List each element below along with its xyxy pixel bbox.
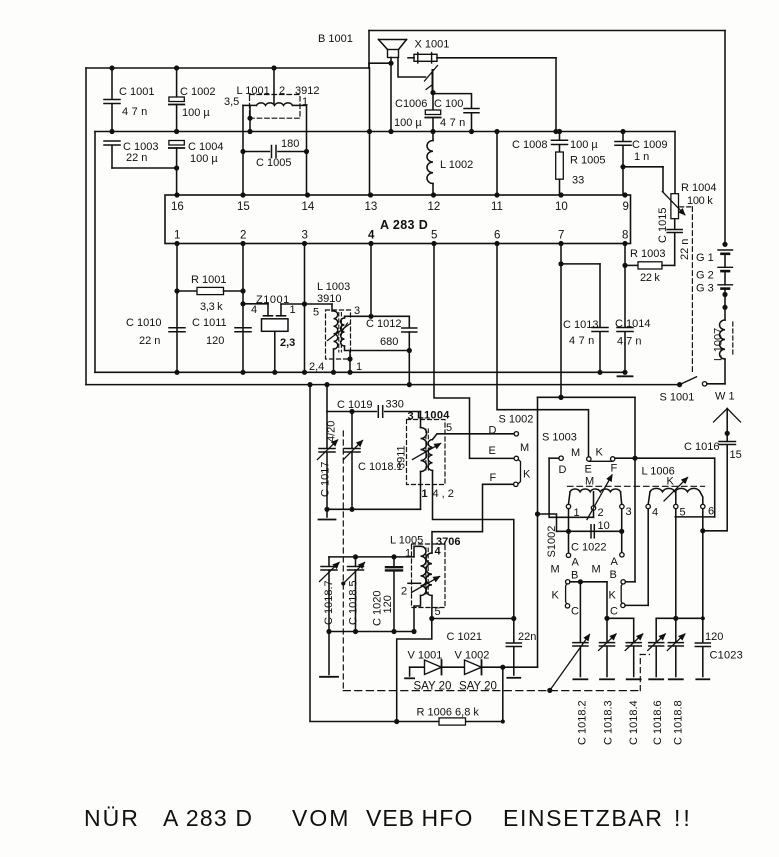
svg-text:6: 6 [708, 506, 714, 518]
svg-text:C 1001: C 1001 [119, 86, 154, 98]
svg-text:EINSETZBAR: EINSETZBAR [503, 805, 663, 831]
svg-text:C 1018.4: C 1018.4 [628, 700, 640, 745]
svg-text:S 1003: S 1003 [542, 432, 577, 444]
svg-text:100 µ: 100 µ [182, 107, 210, 119]
svg-text:1: 1 [290, 304, 296, 316]
svg-text:100 µ: 100 µ [190, 153, 218, 165]
svg-text:1: 1 [422, 488, 428, 500]
svg-text:C 1002: C 1002 [180, 86, 215, 98]
svg-text:C 1012: C 1012 [366, 318, 401, 330]
svg-text:4 7 n: 4 7 n [122, 106, 147, 118]
svg-text:W 1: W 1 [715, 391, 735, 403]
svg-text:L 1006: L 1006 [642, 466, 675, 478]
svg-text:22 k: 22 k [640, 272, 660, 284]
svg-text:C 1005: C 1005 [256, 157, 291, 169]
svg-text:3: 3 [408, 411, 414, 423]
svg-text:HFO: HFO [422, 805, 474, 831]
svg-text:120: 120 [705, 631, 723, 643]
svg-text:9: 9 [623, 201, 629, 213]
svg-text:F: F [490, 472, 497, 484]
svg-text:1: 1 [356, 361, 362, 373]
svg-text:S 1002: S 1002 [499, 414, 534, 426]
svg-text:1: 1 [574, 507, 580, 519]
svg-text:Z1001: Z1001 [256, 294, 290, 306]
svg-text:C 1018.2: C 1018.2 [577, 700, 589, 745]
svg-text:C 1015: C 1015 [657, 208, 669, 243]
svg-text:22 n: 22 n [679, 239, 691, 260]
svg-text:R 1006 6,8 k: R 1006 6,8 k [417, 707, 480, 719]
svg-text:E: E [489, 445, 496, 457]
svg-text:B: B [571, 570, 578, 582]
svg-text:L 1003: L 1003 [317, 281, 350, 293]
svg-text:8: 8 [622, 230, 628, 242]
svg-text:C: C [571, 606, 579, 618]
svg-text:L1004: L1004 [417, 410, 450, 422]
svg-text:C 1010: C 1010 [126, 317, 161, 329]
svg-text:A 283 D: A 283 D [163, 805, 253, 831]
svg-text:33: 33 [572, 175, 584, 187]
svg-text:120: 120 [206, 335, 224, 347]
svg-text:R 1004: R 1004 [681, 182, 716, 194]
svg-text:2: 2 [240, 230, 246, 242]
svg-text:330: 330 [386, 399, 404, 411]
svg-text:C 1013: C 1013 [563, 319, 598, 331]
svg-text:3: 3 [626, 506, 632, 518]
svg-text:12: 12 [428, 201, 441, 213]
svg-text:5: 5 [431, 230, 437, 242]
svg-text:C 1018.6: C 1018.6 [652, 700, 664, 745]
svg-text:120: 120 [382, 595, 394, 613]
svg-text:2: 2 [598, 507, 604, 519]
svg-text:C 1016: C 1016 [684, 441, 719, 453]
svg-text:M: M [592, 564, 601, 576]
svg-text:3: 3 [302, 230, 308, 242]
svg-text:13: 13 [365, 201, 378, 213]
svg-text:C 1009: C 1009 [632, 139, 667, 151]
svg-text:5: 5 [313, 307, 319, 319]
svg-text:1: 1 [405, 548, 411, 560]
svg-text:V 1001: V 1001 [408, 650, 443, 662]
svg-text:VEB: VEB [366, 805, 415, 831]
svg-text:4: 4 [435, 546, 442, 558]
svg-text:C 1017: C 1017 [320, 462, 332, 497]
svg-text:6: 6 [494, 230, 500, 242]
svg-text:M: M [585, 476, 594, 488]
svg-text:2,4: 2,4 [309, 361, 324, 373]
svg-text:10: 10 [555, 201, 568, 213]
svg-text:4 7 n: 4 7 n [440, 117, 465, 129]
svg-text:C 1008: C 1008 [512, 139, 547, 151]
svg-text:C 1018.3: C 1018.3 [603, 700, 615, 745]
svg-text:4,7 n: 4,7 n [617, 336, 641, 348]
svg-text:3,5: 3,5 [224, 96, 239, 108]
svg-text:M: M [571, 447, 580, 459]
svg-text:M: M [551, 564, 560, 576]
svg-text:X 1001: X 1001 [415, 39, 450, 51]
svg-text:V 1002: V 1002 [455, 650, 490, 662]
svg-text:C 1018.8: C 1018.8 [673, 700, 685, 745]
svg-text:22 n: 22 n [126, 152, 147, 164]
svg-text:NÜR: NÜR [84, 805, 140, 831]
svg-text:C 1004: C 1004 [188, 141, 223, 153]
svg-text:2,3: 2,3 [280, 337, 295, 349]
svg-text:S1002: S1002 [546, 526, 558, 558]
svg-text:M: M [520, 442, 529, 454]
svg-text:4: 4 [652, 507, 658, 519]
svg-text:22n: 22n [518, 631, 536, 643]
svg-text:3,3 k: 3,3 k [200, 301, 223, 313]
svg-text:L 1002: L 1002 [440, 159, 473, 171]
svg-text:G 2: G 2 [696, 270, 714, 282]
svg-text:C 100: C 100 [434, 98, 463, 110]
svg-text:B: B [610, 569, 617, 581]
svg-text:L 1005: L 1005 [390, 535, 423, 547]
svg-text:A 283 D: A 283 D [380, 218, 428, 232]
svg-text:4 7 n: 4 7 n [569, 335, 594, 347]
svg-text:2: 2 [279, 85, 285, 97]
svg-text:15: 15 [237, 201, 250, 213]
svg-text:!!: !! [674, 805, 693, 831]
svg-text:F: F [611, 463, 618, 475]
svg-text:C 1018.5: C 1018.5 [348, 580, 360, 625]
svg-text:15: 15 [730, 449, 742, 461]
svg-text:R 1001: R 1001 [191, 274, 226, 286]
svg-text:1 n: 1 n [634, 151, 649, 163]
svg-text:14: 14 [302, 201, 315, 213]
svg-text:3: 3 [354, 305, 360, 317]
svg-text:7: 7 [558, 230, 564, 242]
svg-text:100 k: 100 k [687, 195, 713, 207]
svg-text:D: D [559, 464, 567, 476]
svg-text:S 1001: S 1001 [660, 392, 695, 404]
svg-text:5: 5 [446, 422, 452, 434]
svg-text:K: K [552, 590, 560, 602]
svg-text:R 1003: R 1003 [630, 248, 665, 260]
svg-text:L 1001: L 1001 [237, 85, 270, 97]
svg-text:2: 2 [401, 586, 407, 598]
svg-text:VOM: VOM [292, 805, 350, 831]
svg-text:22 n: 22 n [139, 335, 160, 347]
svg-text:B 1001: B 1001 [318, 33, 353, 45]
svg-text:C 1021: C 1021 [447, 631, 482, 643]
svg-text:D: D [489, 425, 497, 437]
svg-text:K: K [523, 469, 531, 481]
svg-text:C 1014: C 1014 [615, 318, 650, 330]
svg-text:4 , 2: 4 , 2 [433, 488, 454, 500]
svg-text:4/20: 4/20 [326, 421, 338, 442]
svg-text:G 1: G 1 [696, 252, 714, 264]
svg-text:A: A [611, 556, 619, 568]
svg-text:A: A [572, 557, 580, 569]
svg-text:C1023: C1023 [710, 650, 743, 662]
svg-text:L 1007: L 1007 [713, 328, 725, 361]
svg-text:R 1005: R 1005 [570, 155, 605, 167]
svg-text:G 3: G 3 [696, 283, 714, 295]
svg-text:11: 11 [491, 201, 503, 213]
svg-text:K: K [609, 590, 617, 602]
svg-text:3911: 3911 [396, 445, 408, 469]
svg-text:100 µ: 100 µ [394, 117, 422, 129]
svg-text:E: E [585, 464, 592, 476]
svg-text:680: 680 [380, 336, 398, 348]
svg-text:180: 180 [281, 138, 299, 150]
svg-text:1: 1 [174, 230, 180, 242]
svg-text:5: 5 [435, 606, 441, 618]
svg-text:C 1019: C 1019 [337, 399, 372, 411]
svg-text:C 1018.7: C 1018.7 [323, 580, 335, 625]
svg-text:C 1011: C 1011 [192, 317, 227, 329]
svg-text:K: K [596, 447, 604, 459]
svg-text:16: 16 [171, 201, 184, 213]
svg-text:C 1022: C 1022 [571, 542, 606, 554]
svg-text:C: C [610, 606, 618, 618]
svg-text:100 µ: 100 µ [570, 139, 598, 151]
svg-text:4: 4 [251, 304, 257, 316]
svg-text:3910: 3910 [317, 293, 341, 305]
svg-text:5: 5 [680, 507, 686, 519]
svg-text:C1006: C1006 [395, 98, 427, 110]
svg-text:10: 10 [598, 520, 610, 532]
svg-text:4: 4 [368, 230, 375, 242]
